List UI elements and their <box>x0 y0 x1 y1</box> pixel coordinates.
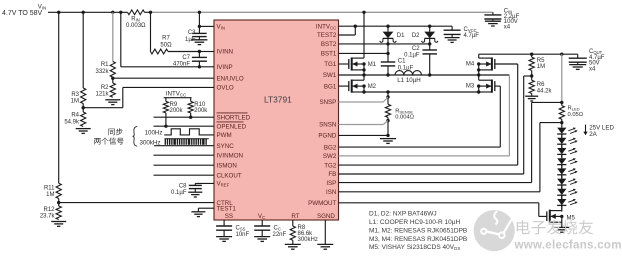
wire IVINP from VIN rail <box>121 12 214 67</box>
svg-text:SHORTLED: SHORTLED <box>217 114 251 121</box>
svg-text:IVINP: IVINP <box>217 64 233 71</box>
capacitor C8 0.1uF on VREF <box>189 185 202 192</box>
label M2 <box>368 84 377 90</box>
resistor R12 23.7k <box>56 206 61 220</box>
ground under C3 <box>191 40 207 45</box>
wire VREF pin stub <box>195 183 214 185</box>
junction R10 on SHORTLED <box>189 116 192 119</box>
label RIN value <box>126 17 146 30</box>
transistor M3 RJK0451DPB (boost bottom) <box>477 75 495 94</box>
capacitor CC 22nF <box>254 226 270 237</box>
junction C2 on SW2 node <box>428 73 431 76</box>
wire TG2 gate wire of M4 <box>495 63 518 65</box>
svg-text:50Ω: 50Ω <box>160 43 172 49</box>
wire VIN rail right (gray) to CIN <box>151 11 493 13</box>
label CC value <box>273 225 287 238</box>
IC bottom pin names <box>225 213 336 220</box>
wire BST1 <box>339 52 389 54</box>
label 25V LED 2A <box>589 124 614 138</box>
junction R5 on VOUT <box>530 53 533 56</box>
svg-text:R4: R4 <box>71 113 79 119</box>
svg-text:OPENLED: OPENLED <box>217 123 247 130</box>
svg-text:R6: R6 <box>537 82 545 88</box>
wire VC pin down <box>261 220 263 226</box>
label RSENSE value <box>395 108 415 120</box>
net INTVCC pullup bar <box>164 97 192 99</box>
wire SYNC <box>154 145 214 147</box>
junction R1/R2 EN/UVLO node <box>111 77 114 80</box>
wire VOUT rail <box>479 53 578 55</box>
junction D1 cathode on BST2 <box>386 42 389 45</box>
wire VIN rail down to R11 <box>58 12 60 183</box>
junction D2 anode on INTVCC <box>428 25 431 28</box>
wire SW2 route (gray) <box>339 75 510 156</box>
svg-text:SYNC: SYNC <box>217 143 235 150</box>
svg-text:BG1: BG1 <box>324 83 337 90</box>
transistor M1 RJK0651DPB (buck top) <box>349 12 366 71</box>
IC right pin names <box>308 23 337 207</box>
capacitor C3 1uF at VIN pin <box>192 26 207 39</box>
svg-text:CLKOUT: CLKOUT <box>217 172 242 179</box>
junction VIN rail to C3/VIN pin <box>198 11 201 14</box>
wire SGND pin down <box>324 220 326 244</box>
svg-text:VC: VC <box>258 213 265 220</box>
resistor RSENSE 0.004ohm <box>385 97 390 121</box>
wire IVINN pin <box>199 51 214 53</box>
junction M4 source on SW node <box>477 73 480 76</box>
svg-text:ISN: ISN <box>326 189 336 196</box>
wire TG2 route <box>339 64 518 165</box>
resistor RIN 0.003ohm on VIN rail <box>128 10 151 15</box>
svg-text:LT3791: LT3791 <box>264 95 292 105</box>
watermark logo <box>474 210 515 251</box>
svg-text:R11: R11 <box>44 185 55 191</box>
transistor M4 RJK0451DPB (boost top) <box>477 54 495 75</box>
junction C7 bottom on IVINP wire <box>198 65 201 68</box>
transistor M2 RJK0651DPB (buck bottom) <box>349 75 366 94</box>
svg-text:RLED: RLED <box>568 106 580 112</box>
junction FB tap R5/R6 <box>530 74 533 77</box>
svg-text:M2: M2 <box>368 84 377 90</box>
wire ISN route <box>339 123 562 192</box>
svg-text:SNSN: SNSN <box>319 122 336 129</box>
svg-text:0.003Ω: 0.003Ω <box>126 23 146 29</box>
junction ISP on RLED top <box>560 101 563 104</box>
junction VIN rail right of RIN <box>149 11 152 14</box>
svg-text:TEST2: TEST2 <box>317 32 337 39</box>
wire M2/M3 source bus <box>364 91 479 93</box>
resistor R3 1M <box>81 88 86 104</box>
label M3 <box>466 84 475 90</box>
svg-text:VREF: VREF <box>217 181 230 188</box>
label R3 value <box>71 92 80 105</box>
junction VIN rail to R1 divider <box>111 11 114 14</box>
label M4 <box>466 62 475 68</box>
svg-text:44.2k: 44.2k <box>537 88 553 94</box>
wire VIN rail down to R7 (IVINN sense) <box>150 12 152 51</box>
inductor L1 10uH <box>395 71 422 75</box>
label 300kHz <box>140 139 161 146</box>
ground at PGND <box>380 139 396 144</box>
junction VIN rail to M1 drain <box>362 11 365 14</box>
wire OVLO route to pin <box>83 87 214 112</box>
label R7 value <box>160 36 172 49</box>
svg-text:x4: x4 <box>504 25 511 31</box>
label R5 value <box>537 58 545 70</box>
junction VIN rail to IVINP sense <box>119 11 122 14</box>
svg-text:M3, M4: RENESAS RJK0451DPB: M3, M4: RENESAS RJK0451DPB <box>369 236 467 243</box>
svg-text:10nF: 10nF <box>236 232 250 238</box>
label C2 value <box>404 46 420 59</box>
svg-text:TG2: TG2 <box>324 162 337 169</box>
junction C1 on SW1 <box>386 73 389 76</box>
svg-text:L1 10µH: L1 10µH <box>397 77 421 84</box>
svg-text:R2: R2 <box>101 85 109 91</box>
svg-text:VIN: VIN <box>217 24 225 31</box>
svg-text:SW2: SW2 <box>323 153 337 160</box>
wire BG2 route <box>339 86 501 147</box>
svg-text:C2: C2 <box>412 46 420 52</box>
svg-text:FB: FB <box>328 171 336 178</box>
junction RSENSE top on source bus <box>386 90 389 93</box>
svg-text:M1: M1 <box>368 62 377 68</box>
svg-text:RT: RT <box>291 213 299 220</box>
svg-text:EN/UVLO: EN/UVLO <box>217 75 244 82</box>
svg-text:ISMON: ISMON <box>217 162 237 169</box>
waveform 100Hz square wave on PWM pin <box>164 129 214 135</box>
resistor R10 200k <box>188 98 193 118</box>
ground under R8 <box>285 244 301 249</box>
wire PGND <box>339 134 389 136</box>
wire ISMON <box>154 164 215 166</box>
svg-text:0.1µF: 0.1µF <box>404 53 420 59</box>
label R9 value <box>170 102 184 114</box>
capacitor C1 0.1uF BST1 to SW1 <box>381 53 396 75</box>
svg-text:CVCC: CVCC <box>464 27 477 33</box>
svg-text:R12: R12 <box>43 207 55 213</box>
resistor R2 121k <box>110 78 115 97</box>
ground under CSS <box>216 237 232 242</box>
label D1 <box>397 33 405 39</box>
svg-text:PWM: PWM <box>217 132 232 139</box>
wire SS pin down <box>223 220 225 226</box>
wire TEST2 tied to INTVCC <box>339 26 356 35</box>
ground under COUT <box>569 65 586 70</box>
junction COUT/LED on VOUT <box>560 53 563 56</box>
svg-text:M4: M4 <box>466 62 475 68</box>
capacitor C2 0.1uF BST2 to SW2 <box>422 50 437 75</box>
resistor R9 200k <box>163 98 168 127</box>
ground under R4 <box>76 129 91 134</box>
label CIN value <box>504 8 520 30</box>
label CVCC value <box>464 27 480 39</box>
wire VOUT down to RLED (gray) <box>561 54 563 102</box>
svg-text:SW1: SW1 <box>323 72 337 79</box>
wire LED string to M5 drain <box>561 201 563 211</box>
label C1 value <box>398 59 414 72</box>
label C7 value <box>173 55 191 67</box>
svg-text:PGND: PGND <box>318 133 336 140</box>
junction D2 cathode on BST2 <box>428 42 431 45</box>
wire RT pin down <box>292 220 294 226</box>
transistor M5 Si2318CDS <box>547 210 564 228</box>
svg-text:1M: 1M <box>537 64 545 70</box>
wire ISP route <box>339 102 562 182</box>
ground under R2 <box>105 100 120 105</box>
svg-text:0.05Ω: 0.05Ω <box>568 112 584 118</box>
junction PGND ground <box>386 134 389 137</box>
capacitor CIN at VIN rail <box>484 12 501 21</box>
label INTVCC net <box>166 90 186 97</box>
label C3 value <box>185 30 196 43</box>
junction VIN rail to R11 divider <box>57 11 60 14</box>
svg-text:M1, M2: RENESAS RJK0651DPB: M1, M2: RENESAS RJK0651DPB <box>369 227 467 234</box>
label 100Hz <box>145 129 163 136</box>
label CSS value <box>236 225 250 238</box>
capacitor COUT <box>569 54 587 64</box>
wire source bus to RSENSE <box>387 92 389 97</box>
waveform 300kHz pulse train on SYNC pin <box>165 138 209 144</box>
IC U1 LT3791 body <box>214 20 339 220</box>
svg-text:D1: D1 <box>397 33 405 39</box>
svg-text:4.7µF: 4.7µF <box>464 33 480 39</box>
capacitor CVCC 4.7uF on INTVCC <box>444 26 461 37</box>
svg-text:2A: 2A <box>589 131 597 138</box>
svg-text:C7: C7 <box>182 55 190 61</box>
label R11 value <box>44 185 55 198</box>
svg-text:R3: R3 <box>71 92 79 98</box>
junction C7 top on IVINN wire <box>198 50 201 53</box>
diode D1 BAT46WJ <box>380 26 396 53</box>
junction SNSP on RSENSE top <box>386 95 389 98</box>
junction TEST2 riser <box>354 25 357 28</box>
resistor RLED 0.05ohm <box>559 102 564 122</box>
svg-text:RIN: RIN <box>131 17 140 23</box>
svg-text:0.1µF: 0.1µF <box>171 190 187 196</box>
wire TG1 to M1 gate <box>339 63 349 65</box>
svg-text:C3: C3 <box>188 30 196 36</box>
svg-text:TG1: TG1 <box>324 61 337 68</box>
label L1 value <box>397 77 421 84</box>
junction ISN on LED string top <box>560 121 563 124</box>
svg-text:R8: R8 <box>298 225 306 231</box>
label R12 value <box>40 207 56 220</box>
junction D1 cathode on BST1 <box>386 52 389 55</box>
wire INTVCC <box>339 25 453 27</box>
svg-text:IVINN: IVINN <box>217 49 234 56</box>
capacitor CSS 10nF <box>216 226 232 237</box>
ground under C8 <box>188 192 202 197</box>
junction R9 on OPENLED <box>164 125 167 128</box>
svg-text:INTVCC: INTVCC <box>316 23 336 30</box>
ground under R12 <box>51 222 66 227</box>
svg-text:332k: 332k <box>95 69 109 75</box>
svg-text:200k: 200k <box>170 108 184 114</box>
svg-text:IVINMON: IVINMON <box>217 152 243 159</box>
ground at TEST1 <box>191 212 205 217</box>
svg-text:SNSP: SNSP <box>319 99 336 106</box>
label M5 <box>567 215 576 221</box>
wire BG2 gate wire of M3 <box>495 85 501 87</box>
ground under CIN <box>485 21 501 26</box>
ground under R6 <box>525 96 538 101</box>
svg-text:PWMOUT: PWMOUT <box>308 200 336 207</box>
wire SW1 node <box>339 74 510 76</box>
svg-text:R7: R7 <box>162 36 170 42</box>
svg-text:SS: SS <box>225 213 233 220</box>
ground under CVCC <box>445 38 460 43</box>
svg-text:1M: 1M <box>71 99 79 105</box>
label C8 value <box>171 184 187 196</box>
svg-text:L1: COOPER HC9-100-R 10µH: L1: COOPER HC9-100-R 10µH <box>369 219 460 226</box>
svg-text:C8: C8 <box>179 184 187 190</box>
resistor R1 332k <box>110 62 115 78</box>
wire CLKOUT <box>154 174 215 176</box>
wire PWMOUT route <box>339 203 547 217</box>
label R4 value <box>64 113 80 126</box>
wire SNSP sense (gray) <box>339 97 389 102</box>
svg-text:R5: R5 <box>537 58 545 64</box>
label R2 value <box>95 85 109 98</box>
LED string 8 LEDs <box>557 124 578 210</box>
annotation sync Chinese text <box>94 128 123 144</box>
ground at SGND <box>317 244 333 249</box>
component note text <box>369 211 467 252</box>
svg-text:CSS: CSS <box>236 225 246 231</box>
svg-text:100Hz: 100Hz <box>145 129 163 136</box>
label R1 value <box>95 62 109 75</box>
wire FB route <box>339 76 532 174</box>
label R6 value <box>537 82 553 95</box>
svg-text:M3: M3 <box>466 84 475 90</box>
wire VIN rail down to R1 (gray) <box>112 12 114 61</box>
wire BG1 to M2 gate <box>339 85 349 87</box>
resistor R6 44.2k <box>529 76 534 96</box>
input voltage range label 4.7V TO 58V <box>2 10 43 17</box>
label D2 <box>412 33 420 39</box>
svg-text:121k: 121k <box>95 92 109 98</box>
svg-text:OVLO: OVLO <box>217 85 234 92</box>
wire OPENLED <box>154 125 215 127</box>
capacitor C7 470nF between IVINN and IVINP <box>192 52 207 67</box>
diode D2 BAT46WJ <box>422 26 438 50</box>
wire SHORTLED <box>154 116 215 118</box>
label LED current arrow <box>583 125 587 136</box>
wire IVINMON <box>154 154 215 156</box>
junction D1 anode on INTVCC <box>386 25 389 28</box>
label RLED value <box>568 106 584 118</box>
svg-text:4.7V TO 58V: 4.7V TO 58V <box>2 10 43 17</box>
junction SNSN on RSENSE bottom <box>386 119 389 122</box>
svg-text:300kHz: 300kHz <box>298 237 318 243</box>
svg-text:C1: C1 <box>398 59 406 65</box>
resistor R11 1M <box>56 183 61 198</box>
junction VIN pin node <box>198 25 201 28</box>
node VIN supply label <box>38 4 46 11</box>
svg-text:x4: x4 <box>589 66 596 72</box>
svg-text:R1: R1 <box>101 62 109 68</box>
svg-text:BST2: BST2 <box>321 41 337 48</box>
resistor R7 50ohm <box>151 49 200 54</box>
svg-text:SGND: SGND <box>317 213 335 220</box>
svg-text:BG2: BG2 <box>324 144 337 151</box>
wire RSENSE to PGND <box>387 121 389 136</box>
svg-text:TEST1: TEST1 <box>217 205 237 212</box>
svg-text:CC: CC <box>274 225 281 231</box>
wire VIN rail left (black) <box>48 11 128 13</box>
svg-text:200k: 200k <box>194 108 208 114</box>
label COUT value <box>589 49 605 72</box>
wire SNSN sense (gray) <box>339 121 389 125</box>
junction R3/R4 OVLO node <box>82 106 85 109</box>
svg-text:D1, D2: NXP BAT46WJ: D1, D2: NXP BAT46WJ <box>369 211 437 218</box>
wire VIN rail down to VIN pin <box>199 12 214 26</box>
svg-text:www.elecfans.com: www.elecfans.com <box>514 240 622 252</box>
label M1 <box>368 62 377 68</box>
watermark site name <box>517 220 593 234</box>
junction R11/R12 CTRL node <box>57 201 60 204</box>
junction VIN rail to R3 divider <box>82 11 85 14</box>
ground under CC <box>254 237 270 242</box>
svg-text:M5: VISHAY Si2318CDS 40VDS: M5: VISHAY Si2318CDS 40VDS <box>369 244 460 251</box>
ground under M5 <box>554 227 569 232</box>
svg-text:BST1: BST1 <box>321 51 337 58</box>
svg-text:22nF: 22nF <box>273 232 287 238</box>
label R10 value <box>194 102 208 114</box>
IC U1 part number label LT3791 <box>264 95 292 105</box>
svg-text:ISP: ISP <box>326 180 336 187</box>
label R8 value <box>298 225 318 243</box>
wire TEST1 stub <box>198 208 214 212</box>
svg-text:INTVCC: INTVCC <box>166 90 186 97</box>
svg-text:1M: 1M <box>46 192 54 198</box>
IC left pin names <box>217 24 251 213</box>
resistor R8 86.6k <box>290 226 295 244</box>
resistor R4 54.9k <box>81 112 86 127</box>
svg-text:D2: D2 <box>412 33 420 39</box>
svg-text:23.7k: 23.7k <box>40 213 56 219</box>
svg-text:0.004Ω: 0.004Ω <box>395 114 415 120</box>
wire EN/UVLO pin <box>113 77 214 79</box>
junction M1 source on SW1 <box>362 70 365 77</box>
annotation brace <box>133 126 138 146</box>
resistor R5 1M <box>529 54 534 76</box>
wire CTRL pin <box>59 199 214 207</box>
watermark url <box>514 240 622 252</box>
svg-text:54.9k: 54.9k <box>64 119 80 125</box>
wire VIN rail down to R3 <box>82 12 84 88</box>
wire BST2 <box>339 43 430 45</box>
